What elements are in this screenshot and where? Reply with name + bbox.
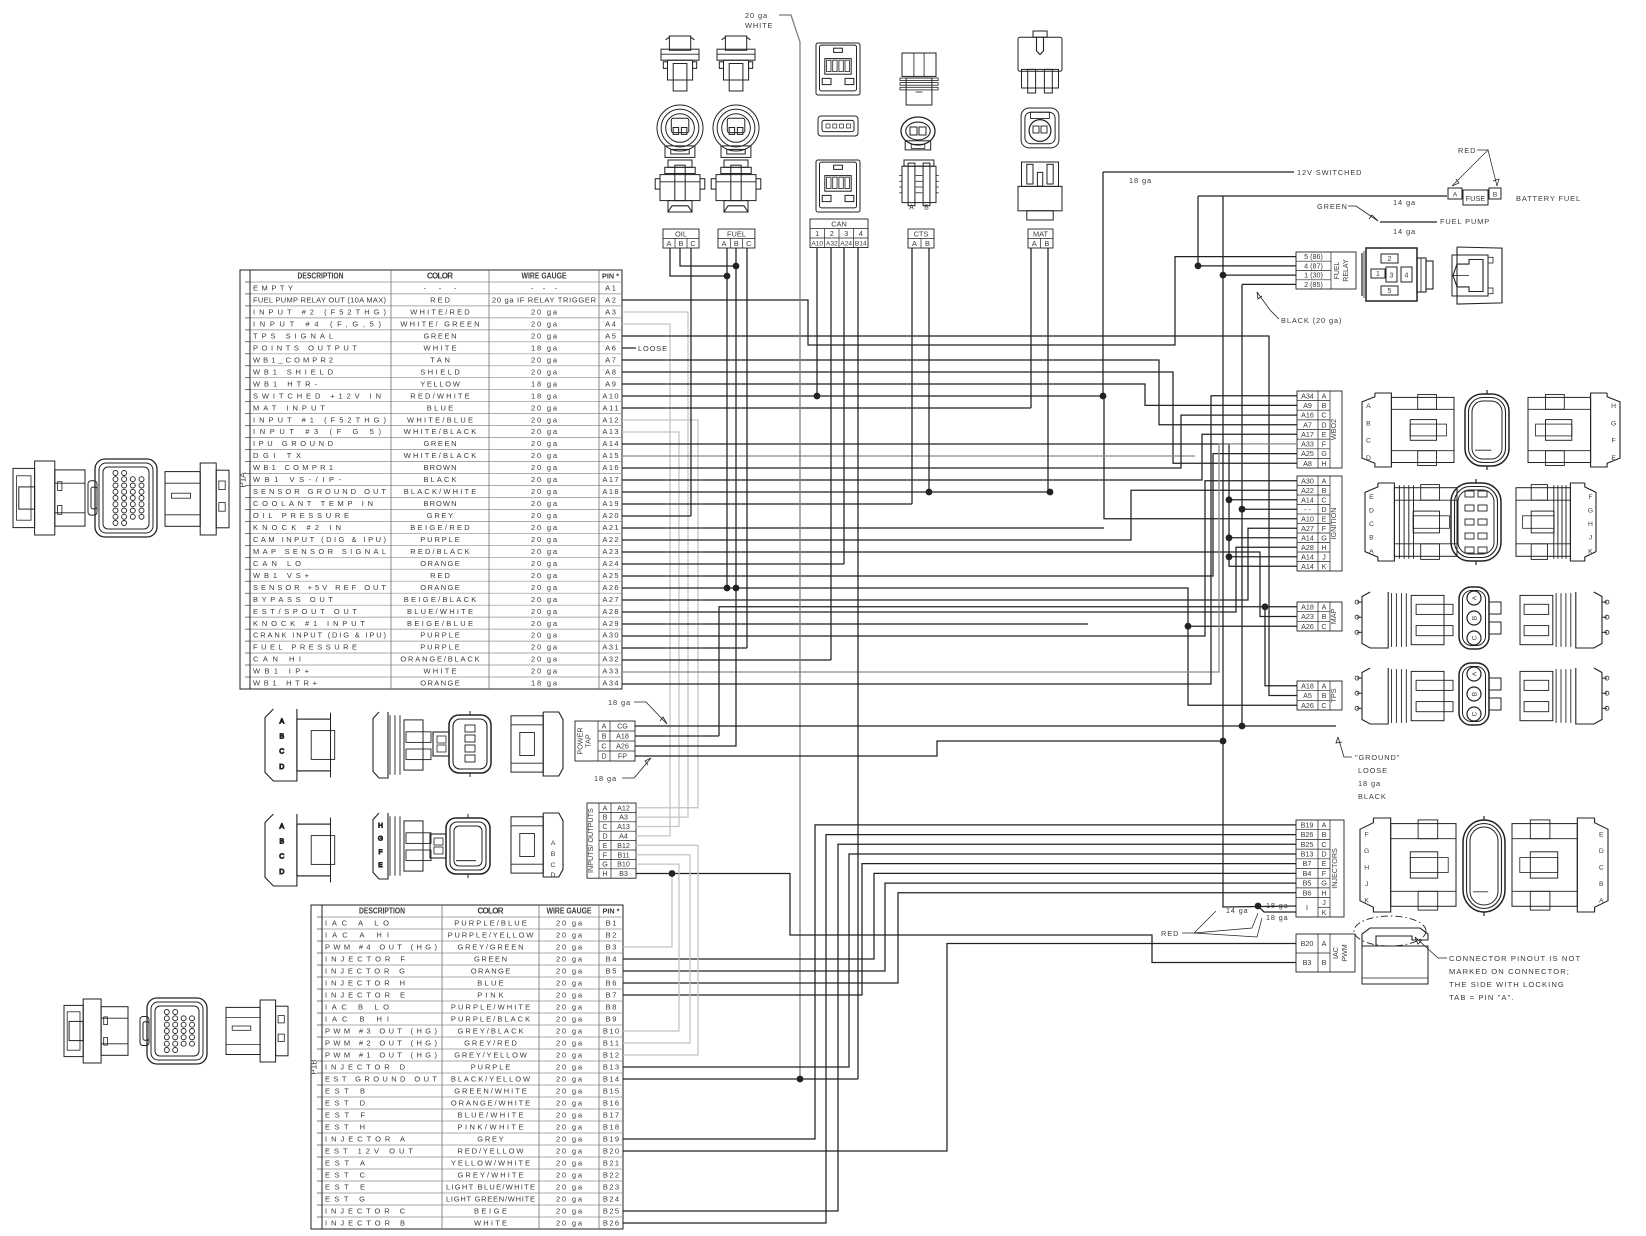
wire B6 injector H [623,893,1296,983]
svg-text:SENSOR GROUND OUT: SENSOR GROUND OUT [253,487,386,496]
junction oilA-fuelA [724,273,731,280]
svg-text:18 ga: 18 ga [1266,901,1289,910]
wire B5 injector G [623,883,1296,971]
svg-text:B11: B11 [603,1039,619,1048]
svg-text:20 ga: 20 ga [556,1027,583,1036]
svg-text:ORANGE/WHITE: ORANGE/WHITE [451,1099,530,1108]
svg-text:BEIGE/BLACK: BEIGE/BLACK [404,595,477,604]
svg-text:RED/BLACK: RED/BLACK [410,547,469,556]
wire A29 knock1 [622,623,1088,625]
svg-text:A: A [667,239,672,248]
svg-text:20 ga: 20 ga [531,308,558,317]
connector MAP face [1459,587,1489,649]
connector P1B ecu face view [140,998,207,1064]
svg-text:A12: A12 [602,415,618,424]
junction A14-ignG [1226,534,1233,541]
svg-text:B12: B12 [617,841,630,850]
svg-text:A10: A10 [1301,514,1314,523]
svg-text:20 ga: 20 ga [556,1159,583,1168]
svg-text:20 ga: 20 ga [531,487,558,496]
wire A32 can hi [622,659,831,661]
junction 12V-A10 [1100,393,1107,400]
svg-text:A: A [1322,681,1327,690]
svg-text:20 ga: 20 ga [531,559,558,568]
connector spare row1 d [511,712,563,776]
wire B11 pwm2 [623,855,690,1043]
wire A3 input2 (white/red) [622,312,688,817]
connector MAT face [1021,108,1059,148]
wire A15 dgi tx (white/black) [622,455,1195,457]
svg-text:G: G [1321,879,1327,888]
svg-text:INPUT #4 (F,G,5): INPUT #4 (F,G,5) [253,320,382,329]
svg-text:OIL PRESSURE: OIL PRESSURE [253,511,349,520]
connector CTS face [901,117,935,150]
svg-text:G: G [602,860,608,869]
svg-text:B: B [279,734,284,741]
svg-text:BEIGE/RED: BEIGE/RED [410,523,470,532]
svg-text:BLUE/WHITE: BLUE/WHITE [458,1111,524,1120]
connector CAN housing bottom [816,160,860,212]
svg-text:INPUT #3 (F G 5): INPUT #3 (F G 5) [253,427,382,436]
svg-text:B25: B25 [1301,840,1314,849]
junction CAN1-A10 [814,393,821,400]
svg-text:B: B [603,813,608,822]
svg-text:B4: B4 [1303,869,1312,878]
svg-text:GREY/YELLOW: GREY/YELLOW [454,1051,528,1060]
svg-text:18 ga: 18 ga [531,379,558,388]
svg-text:BLACK: BLACK [1358,792,1387,801]
connector MAP rear [1520,592,1609,648]
connector OIL face 2a [657,105,703,157]
wire A9 wb1 htr- [622,384,1297,405]
svg-text:PURPLE/BLACK: PURPLE/BLACK [451,1015,530,1024]
svg-text:BLUE: BLUE [477,979,503,988]
svg-text:H: H [1321,543,1326,552]
svg-text:CTS: CTS [914,230,929,239]
svg-text:WHITE/BLACK: WHITE/BLACK [404,451,477,460]
svg-text:A: A [1322,939,1327,948]
svg-text:D: D [279,764,284,771]
svg-text:BLACK/WHITE: BLACK/WHITE [404,487,477,496]
svg-text:C: C [1321,495,1326,504]
junction b3-ioh [669,870,676,877]
wire A11 mat input [622,407,1031,409]
wire B14 can4 link [857,935,859,1079]
wire A19 coolant temp [622,503,912,505]
connector spare row1 b [373,712,431,778]
wire A24 can lo [622,563,844,565]
svg-text:D: D [1321,420,1326,429]
svg-text:A18: A18 [602,487,618,496]
svg-text:20 ga: 20 ga [556,1051,583,1060]
svg-text:F: F [1365,832,1369,839]
svg-text:B21: B21 [603,1159,619,1168]
svg-text:I: I [1306,903,1308,912]
svg-text:K: K [1322,908,1327,917]
svg-text:18 ga: 18 ga [1358,779,1381,788]
wire A33 wb1 ip+ (white) [622,444,1297,672]
svg-text:A14: A14 [1301,562,1314,571]
svg-text:20 ga: 20 ga [556,1039,583,1048]
svg-text:H: H [1321,888,1326,897]
wire B25 injector C [623,844,1296,1211]
wire A17 wb1 vs- [622,434,1297,480]
svg-text:B3: B3 [619,869,628,878]
svg-text:B19: B19 [1301,821,1314,830]
svg-text:B20: B20 [1301,939,1314,948]
svg-text:GREEN: GREEN [424,332,457,341]
junction gnd-ignD [1239,506,1246,513]
fuse terminal A [1448,188,1462,199]
wire A25 wb1 vs+ [622,454,1297,576]
svg-text:B: B [1322,958,1327,967]
pin table INPUTS/OUTPUTS [586,803,636,878]
svg-text:B23: B23 [603,1183,619,1192]
svg-text:18 ga: 18 ga [594,774,617,783]
svg-text:20 ga: 20 ga [531,571,558,580]
pin table IAC PWM [1296,934,1355,972]
wire FUEL A drop [726,248,728,588]
connector INJECTORS side F-K [1360,818,1456,912]
svg-text:18 ga: 18 ga [1129,176,1152,185]
junction A26-fuelB [733,585,740,592]
wire A30 crank input [622,481,1297,636]
svg-text:B: B [1599,881,1604,888]
junction relay30-j [1220,272,1227,279]
svg-text:A4: A4 [619,832,628,841]
svg-text:B: B [679,239,684,248]
svg-text:E: E [1322,514,1327,523]
label table FUEL connector [718,229,755,248]
junction A26-fuelA [724,585,731,592]
svg-text:CAN: CAN [831,220,847,229]
wire A20 oil pressure [622,515,691,517]
leader RED A [1452,150,1488,186]
svg-text:A16: A16 [602,463,618,472]
svg-text:18 ga: 18 ga [531,344,558,353]
svg-text:B15: B15 [603,1087,619,1096]
svg-text:B: B [1322,691,1327,700]
pin table IGNITION [1297,476,1342,571]
connector CTS clip [899,160,938,206]
svg-text:A21: A21 [602,523,618,532]
junction cg-relay85 [1239,723,1246,730]
connector CTS top [900,53,938,105]
svg-text:A26: A26 [1301,622,1314,631]
svg-text:A32: A32 [602,655,618,664]
svg-text:PURPLE/WHITE: PURPLE/WHITE [451,1003,530,1012]
svg-text:A27: A27 [602,595,618,604]
svg-text:D: D [1599,848,1604,855]
svg-text:A: A [1322,821,1327,830]
svg-text:GREY/GREEN: GREY/GREEN [458,943,524,952]
svg-text:20 ga: 20 ga [531,583,558,592]
svg-text:J: J [1322,898,1326,907]
svg-text:H: H [1611,403,1616,410]
svg-text:B25: B25 [603,1207,619,1216]
wire fuse vertical to relay 87 [1198,196,1296,266]
svg-text:K: K [1588,548,1593,555]
svg-text:2: 2 [830,229,834,238]
svg-text:20 ga: 20 ga [556,1171,583,1180]
leader 18 ga upper [634,702,667,724]
svg-text:WIRE GAUGE: WIRE GAUGE [547,907,593,916]
wire A13 input3 (white/black) [622,432,679,827]
wire A14 branch ign G [1229,537,1297,539]
svg-text:A26: A26 [1301,701,1314,710]
svg-text:OIL: OIL [675,230,687,239]
svg-text:H: H [1364,864,1369,871]
svg-text:5 (86): 5 (86) [1304,252,1323,261]
svg-text:4: 4 [1405,273,1409,280]
svg-text:20 ga: 20 ga [531,367,558,376]
svg-text:A3: A3 [619,813,628,822]
wire MAT A drop [1030,248,1032,408]
svg-text:20 ga: 20 ga [556,1015,583,1024]
fuse terminal B [1489,188,1501,199]
connector CAN housing top [816,43,860,95]
svg-text:A11: A11 [602,403,618,412]
svg-text:P1B: P1B [310,1059,319,1074]
svg-text:C: C [1321,701,1326,710]
svg-text:C: C [746,239,752,248]
wire B4 injector F [623,873,1296,959]
wire A8 wb1 shield [622,372,1297,463]
svg-text:WHITE: WHITE [745,21,773,30]
connector OIL clip 3a [655,160,705,212]
wire B26 injector B [623,835,1296,1223]
svg-text:GREY/WHITE: GREY/WHITE [458,1171,524,1180]
connector TPS face [1459,663,1489,725]
wire A34 wb1 htr+ [622,396,1297,684]
svg-text:LIGHT GREEN/WHITE: LIGHT GREEN/WHITE [446,1195,535,1204]
svg-text:RED/WHITE: RED/WHITE [410,391,469,400]
svg-text:RED: RED [1161,929,1179,938]
svg-text:20 ga: 20 ga [531,547,558,556]
wire A18 net map/tps [719,607,1297,736]
connector OIL face 2b [713,105,759,157]
connector IAC PWM housing [1354,916,1428,984]
svg-text:LIGHT BLUE/WHITE: LIGHT BLUE/WHITE [446,1183,535,1192]
leader BLACK [1257,292,1279,319]
svg-text:20 ga: 20 ga [531,475,558,484]
svg-text:F: F [1322,440,1327,449]
svg-text:TAN: TAN [430,355,450,364]
svg-text:A: A [1369,548,1374,555]
pin table INJECTORS [1296,820,1344,917]
svg-text:G: G [378,836,383,843]
svg-text:C: C [690,239,696,248]
svg-text:C: C [1321,840,1326,849]
svg-text:20 ga: 20 ga [531,355,558,364]
svg-text:D: D [601,752,606,761]
wire CAN 2 drop [830,248,832,660]
svg-text:TAB = PIN "A".: TAB = PIN "A". [1449,993,1515,1002]
wire A14 branch ign C [1229,499,1297,501]
svg-text:A10: A10 [602,391,618,400]
svg-text:B: B [1322,830,1327,839]
svg-text:A20: A20 [602,511,618,520]
svg-text:C: C [279,854,284,861]
svg-text:C: C [1321,411,1326,420]
wire B20 est 12v / IAC A [623,944,1296,1152]
svg-text:J: J [1322,552,1326,561]
svg-text:INPUT #2 (F52THG): INPUT #2 (F52THG) [253,308,387,317]
svg-text:CG: CG [617,722,628,731]
svg-text:C: C [602,822,607,831]
connector P1A ecu side view [13,461,85,535]
wire B19 injector A [623,825,1296,1139]
svg-text:YELLOW: YELLOW [420,379,461,388]
svg-text:FUEL: FUEL [1334,261,1341,279]
wire A22 cam input [622,490,1297,540]
svg-text:WIRE GAUGE: WIRE GAUGE [522,272,568,281]
svg-text:RED/YELLOW: RED/YELLOW [458,1147,525,1156]
wire A26 sensor 5v ref [622,588,1297,705]
pin table MAP [1297,602,1342,631]
svg-text:A10: A10 [811,241,823,248]
svg-text:H: H [602,869,607,878]
wire A18 sensor ground [622,491,1050,493]
svg-text:BLACK (20 ga): BLACK (20 ga) [1281,316,1342,325]
svg-text:A: A [279,823,284,830]
svg-text:20 ga: 20 ga [531,451,558,460]
svg-text:20 ga IF RELAY TRIGGER: 20 ga IF RELAY TRIGGER [492,296,597,305]
svg-text:E: E [1611,455,1616,462]
svg-text:BROWN: BROWN [424,463,457,472]
svg-text:FUEL PUMP: FUEL PUMP [1440,217,1490,226]
wire FUEL B / power tap C [635,248,736,746]
svg-text:WHITE: WHITE [474,1219,507,1228]
svg-text:E: E [378,862,383,869]
svg-text:20 ga: 20 ga [556,955,583,964]
svg-text:20 ga: 20 ga [556,1195,583,1204]
svg-text:B20: B20 [603,1147,619,1156]
svg-text:20 ga: 20 ga [531,332,558,341]
connector spare row1 face [433,711,491,777]
pin table WBO2 [1297,391,1342,468]
svg-text:A: A [909,204,914,211]
svg-text:20 ga: 20 ga [531,607,558,616]
svg-text:A26: A26 [616,742,629,751]
svg-text:A24: A24 [840,241,852,248]
svg-text:18 ga: 18 ga [531,391,558,400]
svg-text:B5: B5 [1303,879,1312,888]
svg-text:B: B [551,851,556,858]
wire CAN 1 drop [816,248,818,396]
svg-text:A: A [1453,192,1458,199]
svg-text:20 ga: 20 ga [556,1135,583,1144]
wire CG ground run [635,725,1336,727]
svg-text:C: C [1471,711,1478,716]
svg-text:G: G [1611,420,1616,427]
wire FUEL C drop [746,248,748,648]
leader GROUND [1338,737,1352,757]
svg-text:A30: A30 [1301,476,1314,485]
connector CAN face [818,116,858,136]
connector INJECTORS face [1463,816,1505,916]
svg-text:EST 12V OUT: EST 12V OUT [325,1147,413,1156]
junction A18-tpsA [1262,603,1269,610]
wire CAN 4 drop [857,248,859,935]
leader RED fan [1182,911,1216,933]
wire A7 wb1_compr2 [622,360,1297,425]
svg-text:A26: A26 [602,583,618,592]
svg-text:A9: A9 [1303,401,1312,410]
svg-text:A18: A18 [1301,681,1314,690]
junction fuse-relay87 [1195,263,1202,270]
wire A6 points output stub [622,347,636,349]
svg-text:MAT: MAT [1033,230,1049,239]
svg-text:20 ga: 20 ga [531,631,558,640]
svg-text:A5: A5 [1303,691,1312,700]
svg-text:A31: A31 [602,643,618,652]
connector IGNITION side E-A [1365,483,1457,561]
svg-text:D: D [1369,507,1374,514]
wire relay 85 to ground [1242,283,1296,285]
svg-text:F: F [1322,869,1327,878]
svg-text:20 ga: 20 ga [531,463,558,472]
wire A14 ipu ground [622,444,1297,566]
svg-text:4: 4 [859,229,863,238]
label table CAN connector [810,219,868,248]
connector spare row1 a [265,709,335,781]
svg-text:A14: A14 [1301,552,1314,561]
svg-text:H: H [1588,521,1593,528]
wire A28 est/spout [622,547,1297,612]
svg-text:20 ga: 20 ga [556,1123,583,1132]
wire fuse battery feed [1198,195,1447,197]
label table MAT connector [1028,229,1053,248]
svg-text:B12: B12 [603,1051,619,1060]
fuse body [1463,190,1488,205]
wire ground to ignition D [1242,508,1297,510]
svg-text:MAP SENSOR SIGNAL: MAP SENSOR SIGNAL [253,547,386,556]
svg-text:RED: RED [430,296,450,305]
svg-text:A8: A8 [1303,459,1312,468]
connector MAP side [1355,592,1453,648]
svg-text:C: C [1471,635,1478,640]
svg-text:A: A [722,239,727,248]
connector MAT top [1018,31,1062,93]
svg-text:GREEN/WHITE: GREEN/WHITE [454,1087,527,1096]
svg-text:A: A [1032,239,1037,248]
wire OIL A drop [670,248,727,276]
svg-text:20 ga: 20 ga [531,439,558,448]
svg-text:GREEN: GREEN [474,955,507,964]
svg-text:20 ga: 20 ga [556,979,583,988]
wire power tap B riser [635,735,719,737]
svg-text:C: C [1369,521,1374,528]
junction inj JK split [1255,903,1262,910]
wire relay 30 feed [1223,274,1296,276]
connector pin table P1B [322,905,623,1229]
connector TPS side [1355,668,1453,724]
svg-text:ORANGE/BLACK: ORANGE/BLACK [400,655,479,664]
svg-text:20 ga: 20 ga [556,991,583,1000]
svg-text:WBO2: WBO2 [1329,419,1338,440]
svg-text:DESCRIPTION: DESCRIPTION [359,907,405,916]
svg-text:G: G [1321,449,1327,458]
svg-text:GREY/BLACK: GREY/BLACK [458,1027,524,1036]
svg-text:B: B [602,732,607,741]
svg-text:2 (85): 2 (85) [1304,280,1323,289]
svg-text:B: B [924,204,929,211]
wire A21 knock2 [622,527,1104,529]
svg-text:20 ga: 20 ga [531,523,558,532]
svg-text:18 ga: 18 ga [608,698,631,707]
svg-text:20 ga: 20 ga [531,643,558,652]
